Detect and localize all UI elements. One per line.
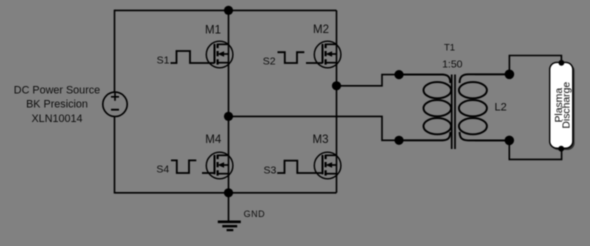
svg-text:M3: M3: [313, 134, 329, 146]
plasma box bottom pin: [558, 146, 564, 152]
svg-text:L2: L2: [494, 101, 506, 113]
pulse source S1: [171, 51, 215, 63]
node secondary bottom terminal: [505, 136, 515, 146]
node primary top terminal: [394, 70, 403, 79]
wire left rail upper: [114, 10, 116, 93]
svg-text:M2: M2: [313, 24, 329, 36]
wire bridge right output to transformer primary top: [337, 75, 444, 86]
wire secondary bottom to plasma: [475, 140, 562, 159]
svg-text:S1: S1: [157, 54, 170, 66]
svg-text:GND: GND: [244, 209, 266, 219]
svg-text:T1: T1: [444, 42, 455, 53]
node top rail junction: [224, 6, 233, 15]
plasma box top pin: [559, 60, 565, 66]
plasma discharge box: [550, 62, 573, 148]
transformer T1 core: [452, 75, 455, 150]
svg-text:S2: S2: [263, 55, 276, 67]
wire left leg: [228, 10, 230, 192]
node bottom rail junction: [224, 188, 233, 197]
plasma discharge box shadow: [551, 64, 574, 150]
wire right leg: [336, 10, 338, 192]
pulse source S3: [277, 161, 322, 173]
svg-text:Discharge: Discharge: [561, 82, 572, 129]
wire S4 gate stub: [202, 172, 215, 174]
voltage source plus sign: [111, 93, 119, 101]
label Plasma Discharge (rotated): [554, 82, 573, 129]
transistor M3: [314, 152, 341, 179]
svg-text:M1: M1: [205, 25, 221, 37]
transformer T1 secondary winding: [459, 74, 505, 140]
svg-text:M4: M4: [205, 134, 222, 146]
wire top rail: [115, 9, 337, 11]
pulse source S4 (inverted): [171, 160, 196, 173]
node left bridge midpoint: [224, 112, 233, 121]
svg-text:S4: S4: [156, 164, 169, 176]
svg-text:1:50: 1:50: [442, 59, 463, 71]
wire bridge left output to transformer primary bottom: [229, 116, 444, 140]
svg-text:DC Power Source: DC Power Source: [14, 85, 100, 97]
voltage source minus sign: [111, 109, 119, 111]
ground: [218, 193, 241, 230]
transistor M1: [206, 41, 233, 68]
svg-text:XLN10014: XLN10014: [31, 113, 82, 125]
transistor M2: [314, 41, 341, 68]
wire left rail lower: [114, 116, 116, 193]
transistor M4: [206, 152, 233, 179]
pulse source S2 (inverted): [278, 52, 305, 63]
transformer T1 primary winding: [403, 75, 451, 141]
node secondary top terminal: [505, 70, 515, 80]
wire bottom rail: [115, 192, 337, 194]
wire S2 gate stub: [306, 62, 323, 64]
voltage source V1 circle: [103, 92, 127, 116]
wire secondary top to plasma: [475, 56, 561, 75]
svg-text:BK Presicion: BK Presicion: [26, 99, 88, 111]
node primary bottom terminal: [394, 136, 403, 145]
svg-text:S3: S3: [263, 165, 276, 177]
node right bridge midpoint: [332, 81, 341, 90]
